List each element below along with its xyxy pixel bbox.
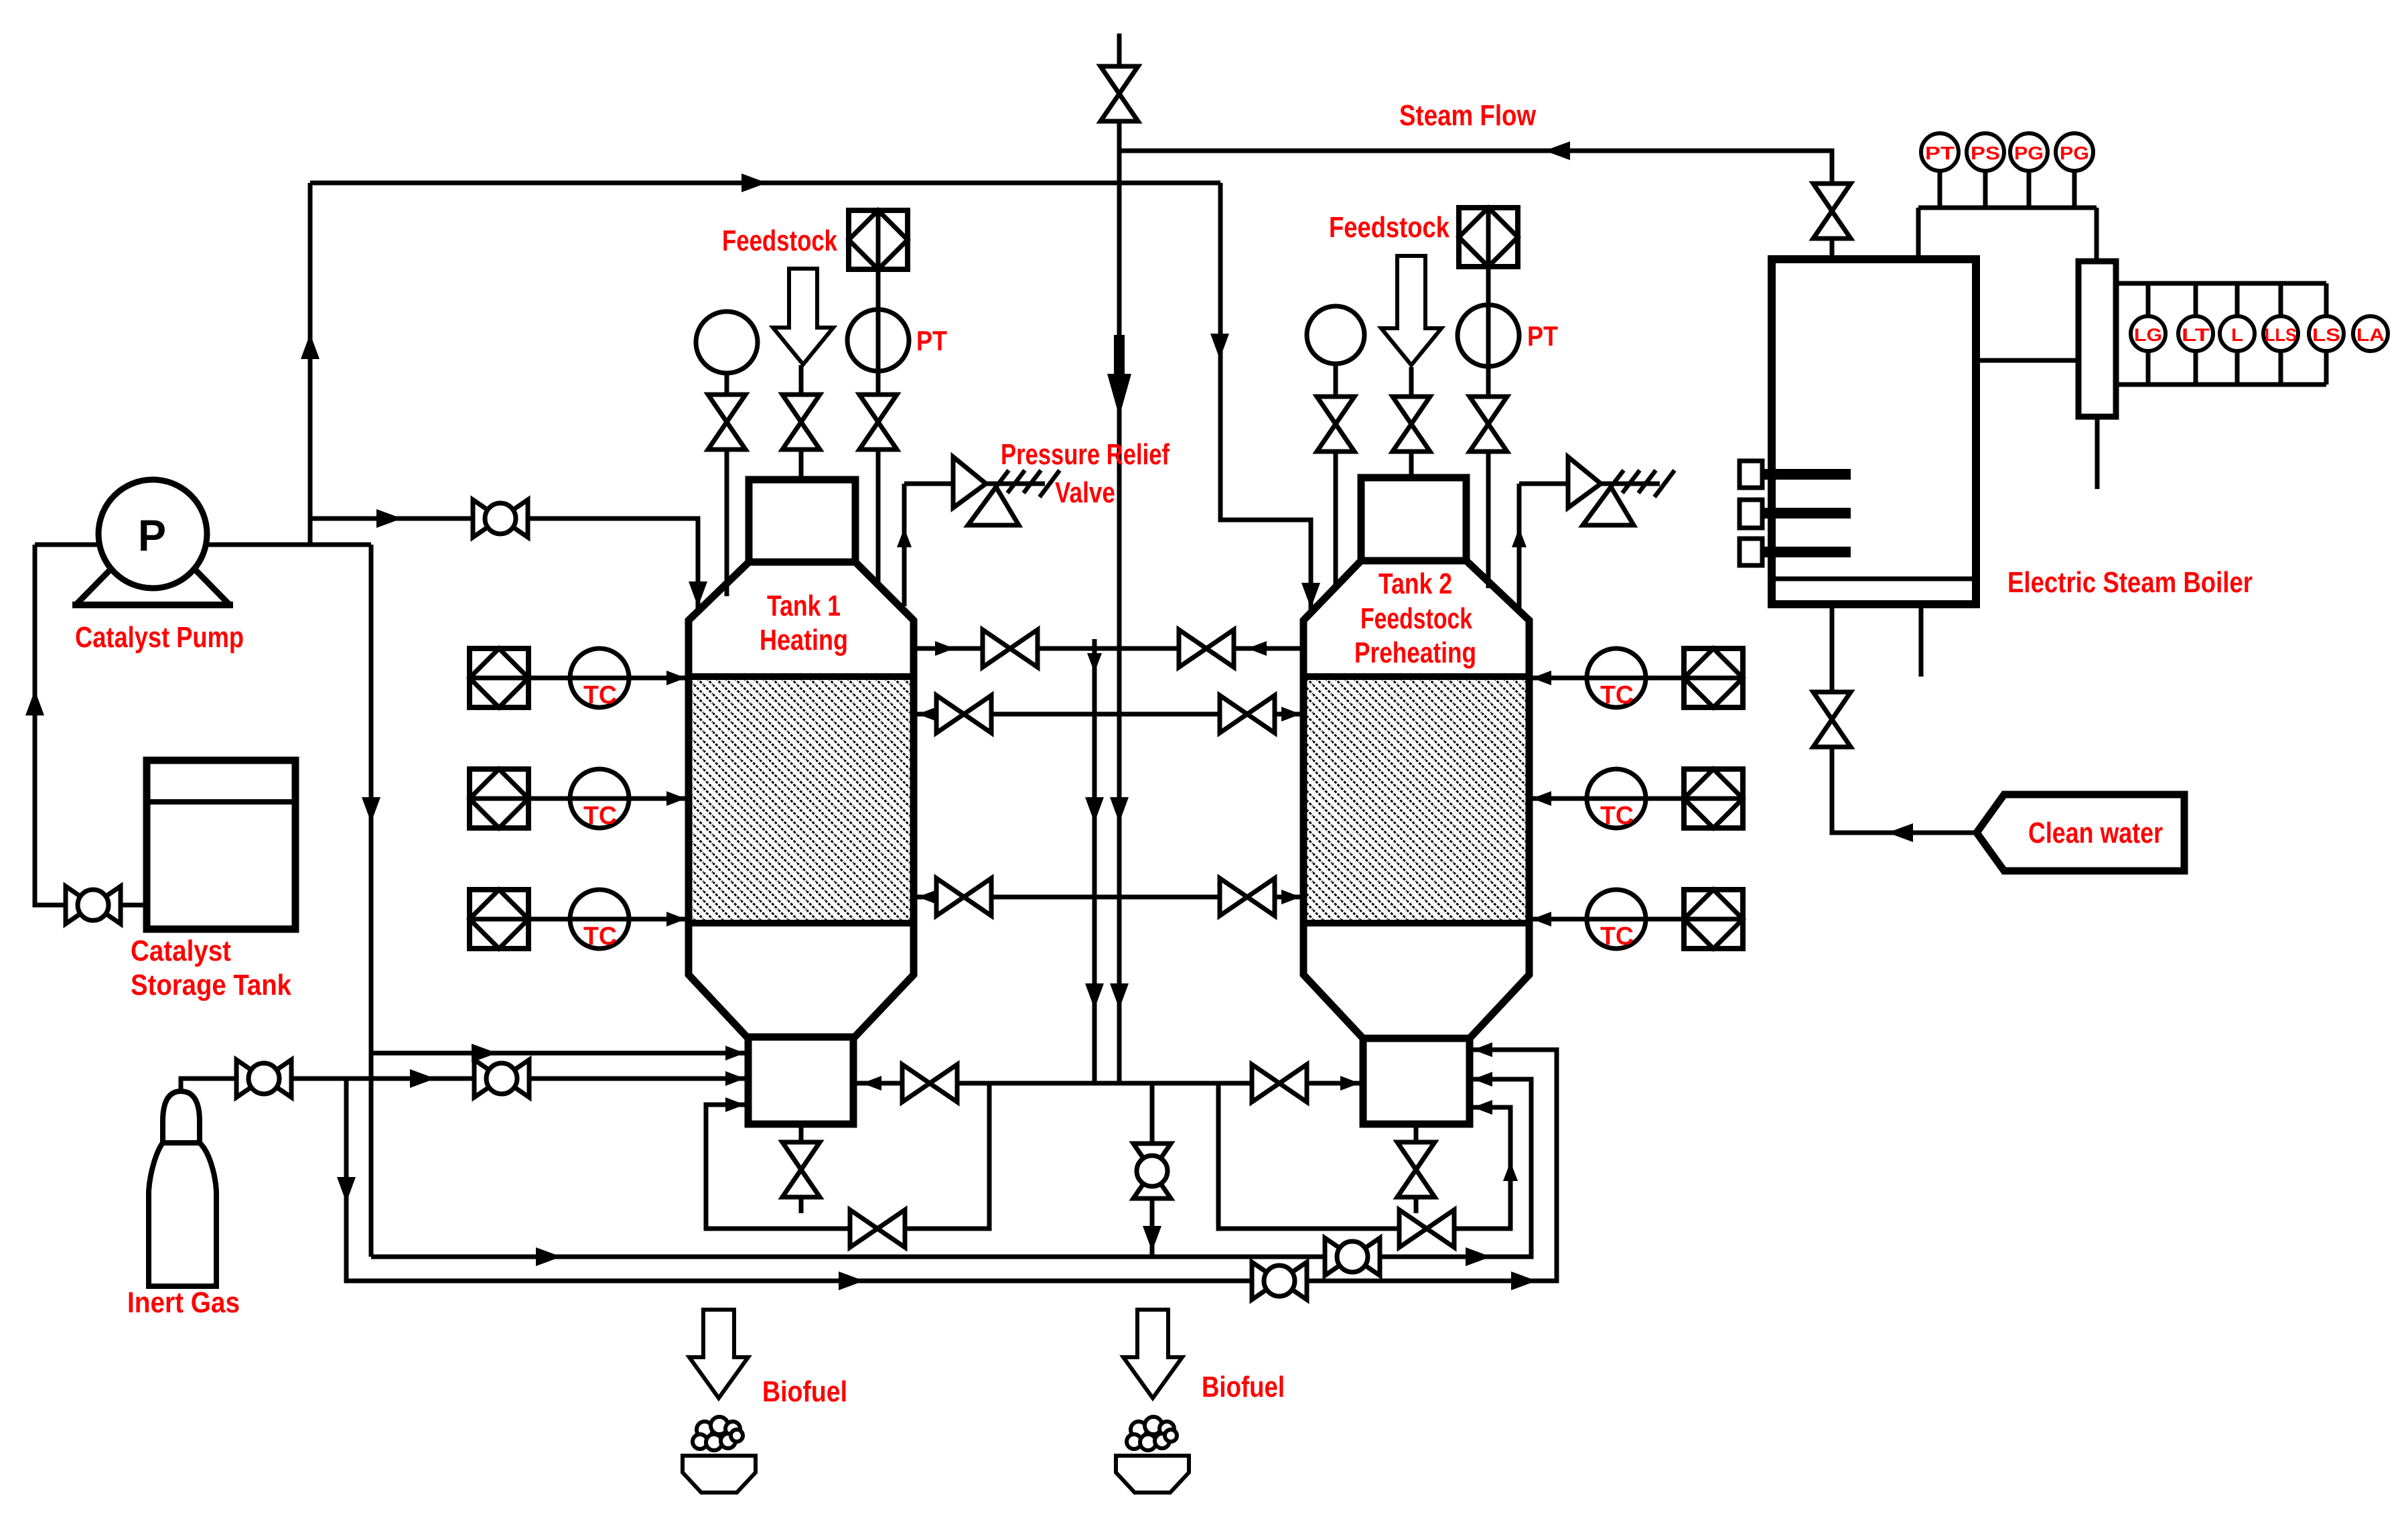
svg-text:Inert Gas: Inert Gas bbox=[127, 1286, 240, 1319]
svg-text:TC: TC bbox=[1600, 802, 1634, 830]
svg-text:LT: LT bbox=[2182, 325, 2210, 345]
svg-text:TC: TC bbox=[583, 802, 617, 830]
svg-text:LS: LS bbox=[2312, 325, 2340, 345]
svg-text:LLS: LLS bbox=[2265, 325, 2297, 345]
svg-text:L: L bbox=[2231, 325, 2243, 345]
svg-text:LA: LA bbox=[2356, 325, 2385, 345]
svg-text:Tank 2: Tank 2 bbox=[1378, 567, 1452, 600]
svg-text:PT: PT bbox=[916, 325, 947, 356]
svg-text:Biofuel: Biofuel bbox=[762, 1375, 847, 1408]
svg-text:Tank 1: Tank 1 bbox=[767, 590, 841, 622]
svg-text:Heating: Heating bbox=[760, 624, 848, 657]
svg-text:P: P bbox=[138, 510, 166, 560]
svg-text:Clean water: Clean water bbox=[2028, 817, 2163, 849]
svg-text:Storage Tank: Storage Tank bbox=[131, 969, 291, 1001]
svg-text:Feedstock: Feedstock bbox=[1329, 211, 1449, 244]
svg-text:PT: PT bbox=[1925, 143, 1955, 163]
svg-text:TC: TC bbox=[583, 922, 617, 951]
svg-text:PT: PT bbox=[1527, 320, 1558, 352]
svg-text:Biofuel: Biofuel bbox=[1202, 1371, 1285, 1403]
svg-text:TC: TC bbox=[583, 681, 617, 709]
svg-text:Feedstock: Feedstock bbox=[722, 224, 837, 257]
svg-text:Catalyst: Catalyst bbox=[131, 935, 231, 967]
svg-text:TC: TC bbox=[1600, 922, 1634, 951]
svg-text:Pressure Relief: Pressure Relief bbox=[1001, 438, 1170, 471]
svg-text:Steam Flow: Steam Flow bbox=[1399, 99, 1537, 132]
svg-text:TC: TC bbox=[1600, 681, 1634, 709]
svg-text:LG: LG bbox=[2134, 325, 2162, 345]
svg-text:PS: PS bbox=[1971, 143, 2000, 163]
svg-text:Catalyst Pump: Catalyst Pump bbox=[75, 621, 244, 654]
svg-text:Feedstock: Feedstock bbox=[1360, 602, 1472, 635]
svg-text:Preheating: Preheating bbox=[1354, 636, 1476, 669]
svg-text:Valve: Valve bbox=[1055, 476, 1115, 509]
svg-text:PG: PG bbox=[2014, 143, 2044, 163]
svg-text:Electric Steam Boiler: Electric Steam Boiler bbox=[2007, 566, 2253, 599]
svg-text:PG: PG bbox=[2060, 143, 2089, 163]
